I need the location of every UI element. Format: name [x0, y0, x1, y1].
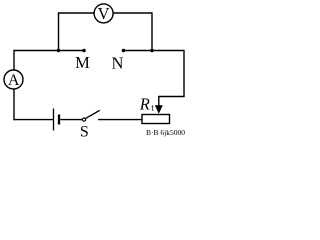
svg-text:N: N [112, 54, 124, 73]
switch S pivot [82, 118, 85, 121]
switch S blade [86, 110, 100, 118]
wire battery to switch [60, 119, 82, 121]
node M terminal dot [82, 49, 86, 53]
node N terminal dot [122, 49, 126, 53]
svg-text:t: t [151, 104, 154, 114]
wire switch to rheostat [98, 119, 142, 121]
rheostat Rt body [142, 115, 170, 124]
battery short plate [58, 115, 60, 125]
wire left vertical lower [13, 89, 15, 121]
svg-text:V: V [98, 4, 110, 23]
voltmeter V1 [94, 4, 113, 23]
svg-text:B·B 6jk5000: B·B 6jk5000 [146, 128, 185, 137]
junction dot right [150, 49, 153, 52]
wire voltmeter right vertical [151, 12, 153, 50]
battery long plate [53, 109, 55, 131]
wire slider connector horizontal [159, 96, 185, 98]
wire left vertical upper [13, 50, 15, 71]
svg-text:R: R [139, 94, 150, 113]
ammeter A1 [4, 70, 23, 89]
wire top-right (voltmeter right lead horizontal) [113, 12, 152, 14]
svg-text:A: A [8, 72, 20, 89]
wire middle row right [124, 50, 185, 52]
wire middle row left [14, 50, 84, 52]
wire slider vertical [158, 96, 160, 107]
wire bottom-left rail [13, 119, 53, 121]
svg-text:M: M [75, 53, 90, 72]
wire right vertical [183, 50, 185, 97]
svg-text:S: S [80, 124, 89, 141]
wire voltmeter left vertical [58, 12, 60, 50]
wire top-left (voltmeter left lead horizontal) [59, 12, 95, 14]
junction dot left [57, 49, 60, 52]
rheostat slider arrow [155, 105, 163, 114]
